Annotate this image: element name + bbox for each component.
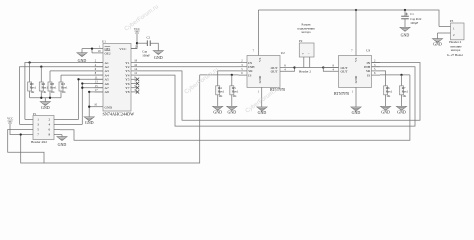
svg-text:VCC: VCC <box>134 27 140 31</box>
svg-text:VCC: VCC <box>119 47 127 51</box>
svg-text:Res1: Res1 <box>30 86 37 90</box>
U3 pin 7 VS stub to supply rail <box>355 10 357 56</box>
svg-text:U3: U3 <box>366 48 370 52</box>
wire A4 from R3 <box>61 74 103 76</box>
wire resistor common tie <box>30 97 61 99</box>
U3 pin 8 OUT stub <box>323 67 338 69</box>
wire A8 to U1 GND <box>88 92 90 117</box>
wire A3 from R8 <box>50 70 103 72</box>
junction R2 tie <box>40 97 42 99</box>
svg-text:P2: P2 <box>299 39 303 43</box>
svg-text:1K: 1K <box>386 94 391 98</box>
C1 lead from rail <box>404 10 406 16</box>
P1 pin 7 stub <box>27 134 33 136</box>
wire C2 to ground <box>150 43 158 50</box>
P2 pin 2 lead <box>309 57 311 68</box>
junction VCC branch <box>20 133 22 135</box>
svg-text:IS: IS <box>367 73 370 77</box>
wire P1 pin3 entry <box>20 123 28 125</box>
wire Y3 to U3 IN <box>137 63 420 121</box>
wire Y2 to U2 INH <box>137 66 239 68</box>
ground for U1 <box>84 117 94 121</box>
svg-text:GND: GND <box>105 106 113 110</box>
U2 pin 1 GND stub <box>261 87 263 107</box>
svg-text:GND: GND <box>78 58 87 63</box>
P2 pin 1 lead <box>303 57 305 68</box>
ground for P3 pin 2 <box>437 33 439 39</box>
U1 pin 16 Y2 stub <box>131 66 137 68</box>
svg-text:Res1: Res1 <box>50 86 57 90</box>
svg-text:мотора: мотора <box>302 30 312 34</box>
wire OE2 riser <box>91 49 93 53</box>
svg-text:Res1: Res1 <box>218 89 225 93</box>
wire P1 pin 2 from A5 riser <box>60 118 79 120</box>
svg-text:Res1: Res1 <box>386 89 393 93</box>
VCC power symbol at P1 <box>7 120 12 122</box>
no-connect mark Y7 <box>136 86 139 89</box>
junction U1 GND <box>88 106 90 108</box>
svg-text:P1: P1 <box>33 112 37 116</box>
header P1 body <box>33 116 54 140</box>
svg-text:1K: 1K <box>233 94 238 98</box>
U2 pin 4 OUT stub <box>280 68 295 72</box>
svg-text:GND: GND <box>354 75 358 83</box>
wire P1 pin 8 to ground <box>60 134 62 136</box>
svg-text:+: + <box>302 52 304 56</box>
U1 pin 8 A4 stub <box>95 74 104 76</box>
P1 pin 1 stub <box>27 118 33 120</box>
svg-text:SN74AHC244DW: SN74AHC244DW <box>103 111 135 116</box>
U2 pin 7 VS stub to supply rail <box>257 10 259 56</box>
svg-text:P3: P3 <box>450 19 454 23</box>
svg-text:GND: GND <box>41 105 50 110</box>
P3 pin 2 stub <box>438 32 451 34</box>
svg-text:GND: GND <box>58 142 67 147</box>
motor supply rail VS <box>258 10 439 27</box>
ground for U3 <box>351 107 361 111</box>
junction R8 tie <box>49 97 51 99</box>
U1 pin 1 OE1 stub <box>95 48 104 50</box>
U1 pin 3 Y8 stub <box>131 91 137 93</box>
svg-text:Res1: Res1 <box>402 89 409 93</box>
svg-text:GND: GND <box>227 110 236 115</box>
wire Y4 to U3 INH <box>137 67 415 126</box>
ground for R7 <box>401 95 403 107</box>
U1 pin 18 Y1 stub <box>131 62 137 64</box>
U1 pin 9 Y5 stub <box>131 78 137 80</box>
U1 pin 12 Y4 stub <box>131 74 137 76</box>
U1 pin 7 Y6 stub <box>131 83 137 85</box>
resistor R2 <box>40 67 42 82</box>
U1 pin 17 A8 stub <box>95 91 104 93</box>
svg-text:GND: GND <box>352 110 361 115</box>
junction U3 OUT tie <box>322 66 324 68</box>
svg-text:BTN7970: BTN7970 <box>334 92 349 96</box>
wire VCC to P1 pin 7 <box>10 123 27 135</box>
wire VCC branch to bottom net <box>21 135 44 164</box>
U1 pin 2 A1 stub <box>95 62 104 64</box>
svg-text:A8: A8 <box>105 90 110 94</box>
svg-text:1K: 1K <box>42 90 47 94</box>
U2 pin 8 OUT stub <box>280 67 295 69</box>
wire A6 row <box>82 83 103 85</box>
wire P1 pin 5 to U2 IS loop <box>8 75 200 163</box>
junction VCC/C2 <box>136 42 138 44</box>
no-connect mark Y8 <box>136 90 139 93</box>
ground for C2 <box>153 51 163 55</box>
U1 pin 19 OE2 stub <box>92 52 103 54</box>
svg-text:GND: GND <box>381 110 390 115</box>
svg-text:OE2: OE2 <box>105 51 111 55</box>
svg-text:100nF: 100nF <box>142 53 150 57</box>
wire P1 pin1 entry <box>25 118 27 120</box>
resistor R8 <box>49 71 51 82</box>
svg-text:6...27 Вольт: 6...27 Вольт <box>447 53 464 57</box>
P1 pin 5 stub <box>27 129 33 131</box>
svg-text:Header 4X2: Header 4X2 <box>31 140 47 144</box>
resistor R3 <box>60 75 62 82</box>
ground for OE pins <box>81 49 83 53</box>
P1 pin 2 stub <box>54 118 60 120</box>
svg-text:C2: C2 <box>147 36 151 40</box>
capacitor C1 polarized <box>401 15 409 17</box>
capacitor C2 <box>146 40 148 46</box>
svg-text:GND: GND <box>213 110 222 115</box>
resistor R9 <box>29 63 31 83</box>
svg-text:VS: VS <box>354 58 358 62</box>
svg-text:−: − <box>308 52 310 56</box>
ground for U2 <box>257 107 267 111</box>
wire VCC to U1 pin 20 <box>131 33 137 49</box>
svg-text:Header 2: Header 2 <box>299 69 311 73</box>
U1 pin 4 A2 stub <box>95 66 104 68</box>
svg-text:1K: 1K <box>62 90 67 94</box>
svg-text:Res1: Res1 <box>232 89 239 93</box>
svg-text:Cap Pol2: Cap Pol2 <box>410 17 422 21</box>
wire OE1 to ground <box>82 48 95 50</box>
wire A5 to P1 pin 2 riser <box>78 79 80 119</box>
svg-text:GND: GND <box>397 110 406 115</box>
svg-text:IS: IS <box>248 73 251 77</box>
U2 pin 3 INH stub <box>239 66 248 68</box>
junction OE nets <box>91 47 93 49</box>
resistor R6 <box>384 86 388 95</box>
P1 pin 3 stub <box>27 123 33 125</box>
U1 pin 6 A3 stub <box>95 70 104 72</box>
svg-text:GND: GND <box>85 120 94 125</box>
U3 pin 5 SR stub <box>372 70 381 72</box>
no-connect mark Y5 <box>136 78 139 81</box>
svg-text:Res1: Res1 <box>61 86 68 90</box>
svg-text:OUT: OUT <box>341 70 349 74</box>
resistor R5 <box>231 75 233 86</box>
U2 pin 5 SR stub <box>239 70 248 72</box>
junction R5 on IS net <box>231 74 233 76</box>
svg-text:GND: GND <box>258 75 262 83</box>
svg-text:C1: C1 <box>410 12 414 16</box>
U1 pin 20 VCC stub <box>131 48 137 50</box>
junction R7 on U3 IS net <box>400 74 402 76</box>
resistor R4 <box>216 86 220 95</box>
ground for R5 <box>231 95 233 107</box>
svg-text:GND: GND <box>401 32 410 37</box>
P1 pin 8 stub <box>54 134 60 136</box>
svg-text:Header 2: Header 2 <box>449 40 461 44</box>
wire A2 to header P1 pin 3 <box>20 67 104 125</box>
svg-text:1K: 1K <box>51 90 56 94</box>
svg-text:1K: 1K <box>402 94 407 98</box>
wire U2 IS <box>200 74 239 76</box>
junction A8 <box>88 91 90 93</box>
wire U2 OUT to P2 <box>295 67 339 69</box>
wire A6-A7 to P1 pin 4 riser <box>81 84 83 125</box>
P1 pin 4 stub <box>54 123 60 125</box>
ground for C1 <box>404 19 406 28</box>
svg-text:Y8: Y8 <box>125 90 130 94</box>
wire Y1 to U2 IN <box>137 62 239 64</box>
wire A1 to header P1 pin 1 <box>25 63 103 120</box>
svg-text:VCC: VCC <box>7 117 13 121</box>
svg-text:1K: 1K <box>30 90 35 94</box>
wire U2 SR to R4 <box>218 71 239 86</box>
ground for R6 <box>385 95 387 107</box>
U3 pin 6 IS stub <box>372 74 381 76</box>
ground for pull-down resistors <box>44 98 46 102</box>
U3 pin 2 IN stub <box>372 62 381 64</box>
svg-text:Res1: Res1 <box>42 86 49 90</box>
header P3 body <box>451 23 465 40</box>
U1 pin 11 A5 stub <box>95 78 104 80</box>
svg-text:1K: 1K <box>219 94 224 98</box>
VCC power symbol at U1 <box>134 30 139 32</box>
svg-text:U2: U2 <box>281 51 285 55</box>
U1 pin 15 A7 stub <box>95 87 104 89</box>
wire P1 pin 6 to U3 IS <box>60 75 410 140</box>
P3 pin 1 stub <box>439 26 451 28</box>
half-bridge driver U2 body <box>247 56 280 88</box>
wire P1 pin 4 from A6 riser <box>60 123 82 125</box>
svg-text:100µF: 100µF <box>410 21 418 25</box>
P1 pin 6 stub <box>54 129 60 131</box>
U3 pin 3 INH stub <box>372 66 381 68</box>
wire U1 GND pin to symbol <box>89 106 94 108</box>
U1 pin 13 A6 stub <box>95 83 104 85</box>
junction A5 <box>77 78 79 80</box>
svg-text:VS: VS <box>258 58 262 62</box>
junction U3 VS on rail <box>355 9 357 11</box>
U3 pin 4 OUT stub <box>323 68 338 72</box>
half-bridge driver U3 body <box>339 56 372 88</box>
U2 pin 6 IS stub <box>239 74 248 76</box>
junction A2/R2 <box>40 66 42 68</box>
junction A1/R9 <box>28 61 30 63</box>
svg-text:U1: U1 <box>102 40 106 44</box>
wire A8 row <box>89 91 103 93</box>
resistor R7 <box>401 75 403 86</box>
svg-text:OUT: OUT <box>271 70 279 74</box>
U2 pin 2 IN stub <box>239 62 248 64</box>
U1 pin 14 Y3 stub <box>131 70 137 72</box>
wire U3 SR to R6 <box>380 71 386 86</box>
wire VCC to C2 <box>137 42 147 44</box>
U1 pin 10 GND stub <box>95 106 104 108</box>
ground for P1 pin 8 <box>61 135 63 137</box>
svg-text:GND: GND <box>154 55 163 60</box>
junction A6 <box>81 82 83 84</box>
U1 pin 5 Y7 stub <box>131 87 137 89</box>
U3 pin 1 GND stub <box>355 87 357 107</box>
junction U2 OUT tie <box>293 66 295 68</box>
buffer IC U1 body <box>103 44 131 112</box>
svg-text:GND: GND <box>433 41 442 46</box>
no-connect mark Y6 <box>136 82 139 85</box>
svg-text:GND: GND <box>258 110 267 115</box>
header P2 body <box>299 43 314 57</box>
wire U3 IS extension <box>380 74 410 76</box>
svg-text:мотора: мотора <box>451 48 461 52</box>
junction C1 on rail <box>404 9 406 11</box>
wire A7 row <box>82 87 103 89</box>
ground for R4 <box>217 95 219 107</box>
wire A5 row <box>79 78 104 80</box>
junction A7 <box>81 87 83 89</box>
